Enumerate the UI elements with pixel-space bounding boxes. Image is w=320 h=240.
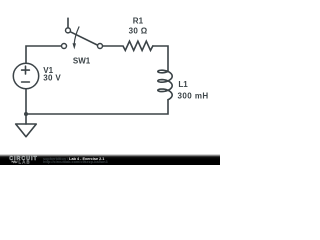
svg-text:LAB: LAB [18,160,30,165]
wire resistor to inductor top [153,46,168,72]
junction node [24,112,28,116]
switch SW1 lever [70,32,97,45]
switch SW1 stub [67,18,69,28]
ground stub [25,114,27,124]
switch SW1 arrowhead [73,43,77,49]
voltage source V1 [13,63,38,88]
resistor R1 [123,41,153,50]
switch SW1 arrow [74,27,79,44]
svg-text:R1: R1 [133,16,144,25]
inductor L1 [158,70,172,100]
wire top-left from V1 top to switch [26,46,61,63]
svg-text:300 mH: 300 mH [178,91,209,100]
svg-text:SW1: SW1 [73,56,91,65]
wire V1 bottom to junction [25,89,27,114]
wire switch to resistor [103,45,122,47]
ground [16,124,37,137]
svg-text:30 V: 30 V [43,73,61,82]
svg-text:http://circuitlab.com/c9kezp-b: http://circuitlab.com/c9kezp-ba5un3 [43,160,108,164]
svg-text:L1: L1 [178,80,188,89]
switch SW1 terminals [62,44,67,49]
wire inductor bottom to bottom rail [26,100,168,114]
CircuitLab logo squiggle [11,161,17,163]
svg-text:30 Ω: 30 Ω [129,27,148,36]
